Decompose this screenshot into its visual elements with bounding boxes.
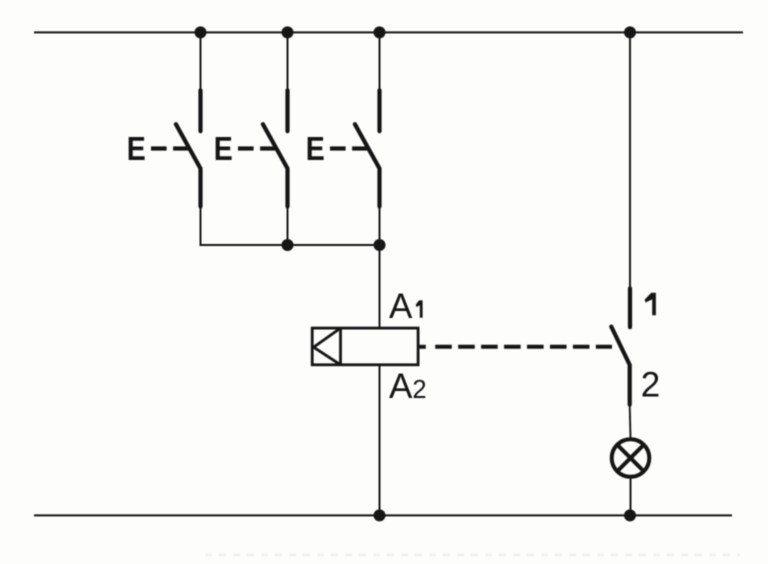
- node: bottom rail junction at coil branch: [374, 509, 386, 521]
- label E (S3): [306, 130, 325, 167]
- relay coil K1 (impulse relay): [312, 328, 418, 365]
- node: top rail junction at S3: [374, 26, 386, 38]
- label A2: [389, 367, 427, 406]
- label E (S2): [214, 130, 233, 167]
- node: top rail junction at lamp branch: [624, 26, 636, 38]
- node: bottom rail junction at lamp branch: [624, 509, 636, 521]
- label E (S1): [127, 130, 146, 167]
- node: bus junction at S2: [282, 239, 294, 251]
- svg-text:E: E: [306, 130, 325, 167]
- svg-text:A: A: [389, 287, 413, 326]
- mechanical link (dashed) coil to contact: [419, 345, 612, 349]
- label A1: [389, 287, 423, 326]
- pushbutton S2 (E): [238, 32, 288, 245]
- lamp P1: [612, 439, 650, 477]
- pin label 2: [641, 366, 660, 405]
- svg-text:2: 2: [641, 366, 660, 405]
- svg-text:E: E: [214, 130, 233, 167]
- wire: lamp to bottom rail: [630, 477, 632, 515]
- wire: coil terminal A2 to bottom rail: [379, 365, 381, 516]
- node: bus junction at S3: [374, 239, 386, 251]
- node: top rail junction at S2: [282, 26, 294, 38]
- pushbutton S1 (E): [151, 32, 201, 245]
- node: top rail junction at S1: [195, 26, 207, 38]
- svg-text:E: E: [127, 130, 146, 167]
- wire: pushbutton bottom bus: [201, 244, 380, 245]
- ghost text artifact at page bottom: [205, 554, 740, 557]
- pin label 1: [645, 293, 656, 316]
- wire: bottom supply rail: [34, 514, 732, 516]
- pushbutton S3 (E): [330, 32, 380, 245]
- wire: top supply rail: [34, 31, 743, 33]
- wire: bus to coil terminal A1: [379, 245, 381, 328]
- contact K1 pins 1-2: [611, 32, 630, 438]
